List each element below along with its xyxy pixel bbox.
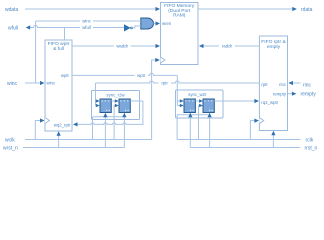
svg-text:wfull: wfull [82, 25, 91, 30]
arrowhead wfull output (points left) [26, 25, 31, 29]
wire stub into FF1 lower pin [96, 105, 98, 107]
wire wptr from U2 to sync_w2r riser (hop at wclk riser) [72, 73, 177, 75]
wire FF2 bottom pin riser to wrst_n [123, 114, 125, 148]
wire sync_r2w clock feed riser right [113, 106, 115, 140]
wire wclk line [25, 139, 152, 141]
svg-text:wdata: wdata [5, 7, 19, 13]
arrowhead into FF3 lower pin [180, 104, 184, 108]
net label rptr [159, 80, 172, 86]
wire FF3 Q to FF4 D [195, 100, 200, 102]
svg-text:rinc: rinc [279, 82, 287, 87]
arrowhead into FF2 D [115, 99, 119, 103]
wire wptr riser into sync_w2r [176, 75, 178, 105]
wire wdata [25, 8, 157, 10]
svg-text:rq2_wptr: rq2_wptr [261, 100, 278, 105]
wire FF1 bottom pin riser to wrst_n [104, 114, 106, 148]
arrowhead waddr into U1 [156, 44, 161, 48]
svg-text:wclk: wclk [5, 138, 15, 144]
wire stub into FF3 lower pin [177, 105, 181, 107]
svg-text:wfull: wfull [8, 26, 18, 32]
svg-text:rclk: rclk [306, 138, 314, 144]
arrowhead winc into U2 [40, 81, 45, 85]
net label raddr [219, 43, 235, 49]
wire sync_w2r clock feed riser right [198, 106, 200, 140]
arrowhead into FF2 lower pin [115, 104, 119, 108]
arrowhead into FF1 D [96, 99, 100, 103]
wire rempty out of U3 [288, 93, 294, 95]
arrowhead rinc into U3 right edge [288, 81, 293, 85]
wire FF3 bottom pin riser to rrst_n [189, 114, 191, 148]
arrowhead rclk into U3 clock wedge [254, 119, 259, 123]
svg-text:wren: wren [162, 21, 172, 26]
wire winc branch to AND gate [36, 20, 141, 22]
wire wptr stub into FF3 D [177, 100, 181, 102]
arrowhead wdata into U1 [156, 7, 161, 11]
svg-text:raddr: raddr [222, 44, 233, 49]
svg-text:RAM): RAM) [173, 13, 186, 19]
svg-text:empty: empty [267, 44, 281, 50]
svg-text:wq2_rptr: wq2_rptr [54, 123, 71, 128]
wire rptr stub into FF1 D [96, 100, 98, 102]
wire raddr U3 to U1 [203, 45, 260, 47]
svg-text:rempty: rempty [301, 92, 317, 98]
clock wedge on U3 left edge [259, 118, 263, 124]
clock wedge on U1 left edge [161, 57, 165, 63]
arrowhead wrst_n into U2 bottom [57, 131, 61, 136]
flip-flop FF4 (sync_w2r) [203, 99, 214, 113]
wire rptr riser into sync_r2w [95, 83, 97, 106]
arrowhead into FF3 bottom [188, 113, 192, 118]
arrowhead into FF3 D [180, 99, 184, 103]
arrowhead into FF4 D [199, 99, 203, 103]
svg-text:rrst_n: rrst_n [305, 146, 318, 152]
svg-text:& full: & full [53, 46, 64, 52]
arrowhead wclk into U1 clock wedge [155, 58, 160, 62]
arrowhead into FF1 lower pin [96, 104, 100, 108]
wire wrst_n line [23, 147, 124, 149]
svg-text:rdata: rdata [301, 7, 313, 13]
svg-text:wptr: wptr [137, 73, 146, 78]
arrowhead rdata output [292, 7, 297, 11]
arrowhead rempty output [292, 92, 297, 96]
block U2: FIFO wptr & full [45, 40, 72, 131]
wire rclk riser to sync_w2r [176, 115, 178, 140]
wire winc into U2 [25, 82, 42, 84]
net label wptr [135, 72, 149, 78]
inverter G2 (~wfull) [124, 24, 132, 31]
wire wclk riser to U1 clock [152, 60, 157, 140]
wire rq2_wptr from FF4 Q to U3 [214, 100, 256, 102]
wire wfull riser from U2 top [64, 28, 66, 41]
svg-text:waddr: waddr [116, 44, 128, 49]
block U5: sync_w2r [176, 90, 224, 118]
block U1: FIFO Memory (Dual Port RAM) [161, 3, 199, 65]
net label winc on wire [80, 18, 93, 24]
wire wren from AND gate to U1 [154, 23, 158, 25]
flip-flop FF3 (sync_w2r) [184, 99, 195, 113]
wire rrst_n riser into U3 bottom [272, 133, 274, 148]
arrowhead into FF1 bottom [103, 113, 107, 118]
svg-text:sync_w2r: sync_w2r [188, 92, 207, 97]
arrowhead wren into U1 [156, 21, 161, 25]
wire sync_w2r inner clock line [177, 114, 210, 116]
clock wedge on U2 left edge [45, 118, 49, 124]
wire FF1 Q to FF2 D [111, 100, 116, 102]
wire inverter output jog to AND gate [132, 26, 140, 28]
block U3: FIFO rptr & empty [259, 36, 287, 131]
arrowhead into FF2 bottom [122, 113, 126, 118]
svg-text:winc: winc [82, 19, 91, 24]
svg-text:rptr: rptr [261, 82, 268, 87]
wire rdata [198, 8, 293, 10]
svg-text:wptr: wptr [61, 73, 70, 78]
arrowhead wq2_rptr into U2 right edge [73, 122, 78, 126]
wire rclk riser to U3 clock [250, 121, 255, 140]
wire rclk line [177, 139, 300, 141]
svg-text:winc: winc [7, 81, 18, 87]
arrowhead into FF4 lower pin [199, 104, 203, 108]
AND gate G1 (wren = winc & ~wfull) [141, 18, 154, 29]
block U4: sync_r2w [92, 91, 140, 120]
svg-text:winc: winc [47, 81, 56, 86]
wire sync_r2w inner clock line [93, 116, 125, 118]
svg-text:rempty: rempty [273, 92, 287, 97]
arrowhead rrst_n into U3 bottom [271, 131, 275, 136]
arrowhead rq2_wptr into U3 left edge [254, 99, 259, 103]
net label waddr [114, 43, 131, 49]
wire rptr from U3 to sync_r2w (hops at two risers) [96, 81, 260, 83]
svg-text:rinc: rinc [303, 82, 312, 88]
wire winc vertical riser [35, 21, 37, 83]
wire wrst_n riser into U2 bottom [58, 133, 60, 148]
svg-text:rptr: rptr [161, 81, 168, 86]
wire rinc into U3 [292, 82, 301, 84]
net label wfull on wire [80, 25, 93, 31]
svg-text:wrst_n: wrst_n [3, 146, 18, 152]
wire sync_r2w clock feed riser left [92, 117, 94, 140]
wire wclk riser to U2 clock [35, 121, 41, 140]
arrowhead wclk into U2 clock wedge [40, 118, 45, 122]
wire waddr U2 to U1 [72, 45, 157, 47]
wire wq2_rptr from FF2 Q to U2 (with hops over risers) [76, 101, 143, 124]
wire FF4 bottom pin riser to rrst_n [209, 114, 211, 148]
svg-text:sync_r2w: sync_r2w [106, 93, 125, 98]
arrowhead into FF4 bottom [208, 113, 212, 118]
wire stub into FF4 lower pin [199, 105, 201, 107]
arrowhead raddr into U1 right edge [199, 44, 204, 48]
wire stub into FF2 lower pin [114, 105, 116, 107]
wire wfull (to output and inverter, hop over riser) [30, 26, 125, 28]
flip-flop FF2 (sync_r2w) [119, 99, 130, 113]
flip-flop FF1 (sync_r2w) [100, 99, 111, 113]
wire rrst_n line [190, 147, 300, 149]
